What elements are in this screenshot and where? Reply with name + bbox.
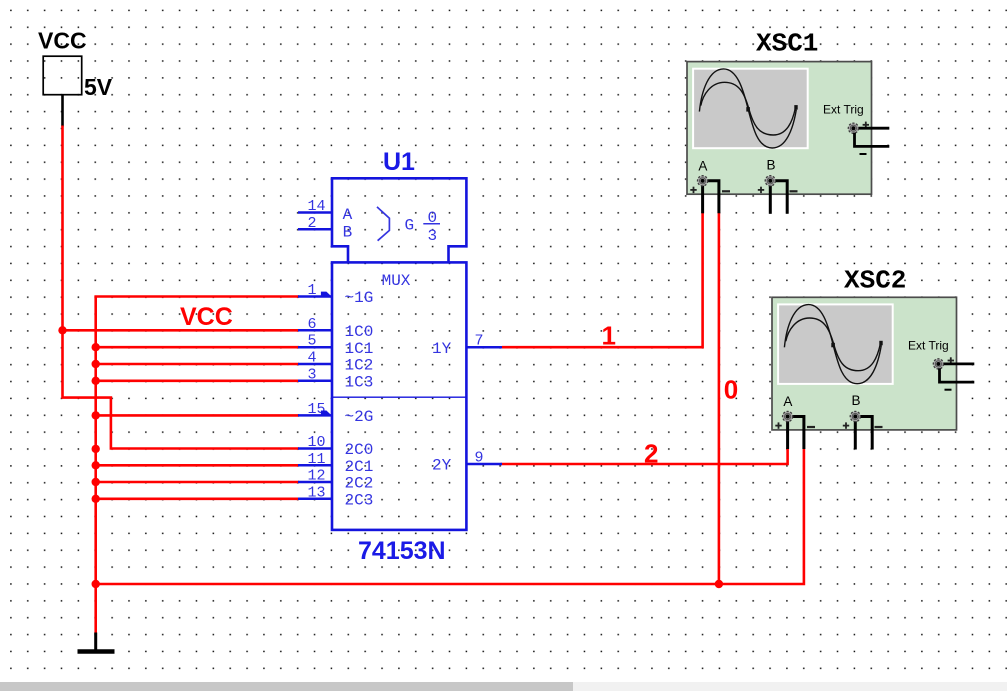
svg-text:VCC: VCC [38, 28, 87, 54]
wire pin4 (1C2) to GND vertical [94, 363, 299, 366]
pin 5 (1C1) [298, 346, 332, 349]
junction pin11 [92, 461, 100, 469]
scrollbar thumb [0, 682, 573, 691]
channel B minus [875, 426, 883, 428]
svg-text:3: 3 [308, 366, 317, 383]
junction pin15 [92, 411, 100, 419]
scope screen [692, 68, 809, 150]
active-low marker pin 15 [321, 411, 331, 415]
pin 13 (2C3) [298, 498, 332, 501]
svg-text:A: A [343, 206, 353, 224]
svg-text:Ext Trig: Ext Trig [908, 338, 949, 352]
wire pin12 (2C2) to GND vertical [94, 481, 299, 484]
wire bottom GND bus to XSC2 A- [94, 449, 804, 585]
svg-text:XSC1: XSC1 [756, 29, 818, 59]
svg-text:G: G [405, 217, 415, 235]
svg-text:14: 14 [308, 198, 326, 215]
ext trig wire + [944, 362, 974, 365]
trigger marker mid [746, 107, 750, 112]
svg-text:Ext Trig: Ext Trig [823, 103, 864, 117]
svg-text:15: 15 [308, 401, 326, 418]
pin 7 (1Y output) [466, 346, 502, 349]
junction GND vertical / bottom bus [92, 580, 100, 588]
svg-text:A: A [783, 394, 792, 409]
pin 10 (2C0) [298, 447, 332, 450]
svg-text:B: B [852, 393, 861, 408]
MUX block outline [332, 262, 466, 530]
wire pin3 (1C3) to GND vertical [94, 379, 299, 382]
svg-text:VCC: VCC [180, 303, 233, 331]
svg-text:2C0: 2C0 [345, 441, 374, 459]
svg-text:13: 13 [308, 484, 326, 501]
svg-text:1C0: 1C0 [345, 323, 374, 341]
trigger marker right [794, 105, 797, 110]
svg-text:1C2: 1C2 [345, 357, 374, 375]
channel A plus [775, 422, 781, 428]
svg-text:2: 2 [308, 215, 317, 232]
svg-text:5V: 5V [84, 74, 113, 100]
scope body [772, 297, 957, 430]
waveform trace channel B [701, 82, 796, 135]
ext trig minus sign [860, 153, 867, 155]
pin 15 (~2G) [298, 414, 332, 417]
scope body [687, 62, 872, 195]
ext trig wire - [855, 133, 890, 147]
pin 9 (2Y output) [466, 463, 502, 466]
junction pin3 [92, 377, 100, 385]
wire pin15 (~2G) to GND vertical [94, 414, 299, 417]
ext trig plus sign [948, 357, 954, 363]
svg-text:XSC2: XSC2 [844, 265, 906, 295]
ext trig terminal [933, 359, 943, 369]
svg-text:1C1: 1C1 [345, 340, 374, 358]
svg-text:1Y: 1Y [432, 340, 452, 358]
ground symbol [78, 633, 115, 652]
channel A stubs [701, 184, 704, 214]
svg-text:1: 1 [308, 282, 317, 299]
IC U1 74153N multiplexer [298, 148, 502, 565]
svg-text:4: 4 [308, 350, 317, 367]
waveform trace channel A [784, 305, 881, 384]
svg-text:2: 2 [644, 438, 658, 468]
svg-text:2C3: 2C3 [345, 492, 374, 510]
junction pin12 [92, 478, 100, 486]
MUX section divider [332, 396, 466, 398]
wire XSC1 A- down to bottom bus [718, 213, 721, 584]
svg-text:3: 3 [428, 227, 438, 245]
svg-text:5: 5 [308, 333, 317, 350]
power source VCC [38, 28, 113, 127]
ext trig plus sign [863, 122, 869, 128]
svg-text:2C1: 2C1 [345, 458, 374, 476]
pin 6 (1C0) [298, 329, 332, 332]
svg-text:1: 1 [602, 321, 616, 351]
svg-text:9: 9 [475, 450, 484, 467]
trigger marker right [879, 341, 882, 346]
junction bottom bus / XSC1 A- [715, 580, 723, 588]
wire VCC vertical from source down to corner [63, 126, 300, 449]
svg-text:1C3: 1C3 [345, 374, 374, 392]
mux chevron symbol [377, 207, 389, 241]
svg-text:2Y: 2Y [432, 457, 452, 475]
junction VCC wire / pin6 wire [58, 326, 66, 334]
svg-text:6: 6 [308, 316, 317, 333]
channel A terminal [783, 411, 793, 421]
channel A minus [807, 426, 815, 428]
wire GND net: pin1 corner + long vertical [96, 297, 299, 634]
svg-text:10: 10 [308, 434, 326, 451]
junction (stub) on GND vertical [92, 445, 100, 453]
junction pin13 [92, 495, 100, 503]
active-low marker pin 1 [321, 292, 331, 296]
channel A terminal [698, 176, 708, 186]
svg-text:2C2: 2C2 [345, 475, 374, 493]
channel A plus [690, 187, 696, 193]
pin 2 (B select) [298, 228, 332, 231]
svg-text:~1G: ~1G [345, 289, 374, 307]
wire pin5 (1C1) to GND vertical [94, 346, 299, 349]
channel B stubs [769, 184, 772, 214]
channel A stubs [786, 419, 789, 449]
junction pin5 [92, 343, 100, 351]
ext trig wire - [940, 368, 975, 382]
pin 3 (1C3) [298, 380, 332, 383]
channel B terminal [765, 176, 775, 186]
svg-text:B: B [767, 158, 776, 173]
trigger marker mid [831, 343, 835, 348]
ext trig terminal [848, 123, 858, 133]
channel B plus [758, 187, 764, 193]
pin 12 (2C2) [298, 481, 332, 484]
channel B stubs [854, 419, 857, 449]
pin 4 (1C2) [298, 363, 332, 366]
pin 14 (A select) [298, 211, 332, 214]
svg-text:11: 11 [308, 451, 326, 468]
junction pin4 [92, 360, 100, 368]
svg-text:74153N: 74153N [358, 537, 446, 565]
svg-text:A: A [698, 159, 707, 174]
wire 2Y (pin9) to XSC2 A+ [501, 449, 788, 465]
channel B minus [790, 190, 798, 192]
scrollbar track [0, 682, 1007, 691]
svg-text:MUX: MUX [382, 272, 411, 290]
scope screen [777, 303, 894, 385]
channel A minus [722, 190, 730, 192]
waveform trace channel A [699, 69, 796, 148]
ext trig wire + [859, 127, 889, 130]
common control block outline [332, 178, 466, 262]
svg-text:0: 0 [724, 374, 738, 404]
svg-text:~2G: ~2G [345, 408, 374, 426]
pin 1 (~1G) [298, 295, 332, 298]
svg-text:7: 7 [475, 333, 484, 350]
svg-text:B: B [343, 224, 353, 242]
wire pin13 (2C3) to GND vertical [94, 497, 299, 500]
waveform trace channel B [786, 318, 881, 371]
svg-text:12: 12 [308, 468, 326, 485]
oscilloscope XSC2 [772, 265, 974, 449]
channel B plus [843, 422, 849, 428]
wire 1Y (pin7) to XSC1 A+ [502, 213, 703, 347]
oscilloscope XSC1 [687, 29, 889, 214]
pin 11 (2C1) [298, 464, 332, 467]
channel B terminal [850, 411, 860, 421]
wire VCC to pin 6 (1C0) [63, 329, 300, 332]
ext trig minus sign [945, 389, 952, 391]
svg-text:U1: U1 [383, 148, 415, 176]
wire pin11 (2C1) to GND vertical [94, 464, 299, 467]
